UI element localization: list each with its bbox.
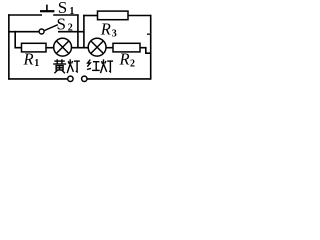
svg-text:S: S bbox=[57, 14, 66, 33]
resistor R3 bbox=[98, 11, 129, 20]
wire top-right segment of S1 branch bbox=[53, 14, 78, 16]
resistor R2 bbox=[113, 43, 140, 52]
svg-text:R: R bbox=[23, 50, 34, 69]
svg-text:1: 1 bbox=[34, 58, 39, 69]
stray mark near right rail bbox=[147, 33, 151, 35]
label R1 bbox=[23, 50, 40, 69]
wire R3 feed bbox=[83, 15, 97, 17]
wire right rail bbox=[150, 15, 152, 80]
wire junction segment between lamps bbox=[72, 47, 89, 49]
label S2 bbox=[57, 14, 73, 33]
label R2 bbox=[119, 50, 136, 70]
resistor R1 bbox=[22, 43, 47, 52]
svg-text:R: R bbox=[100, 20, 111, 39]
svg-text:2: 2 bbox=[68, 22, 73, 33]
switch S2 bbox=[39, 25, 58, 34]
label 红灯 (red lamp) hand-drawn glyphs bbox=[87, 59, 113, 73]
wire R1 to yellow lamp bbox=[46, 47, 55, 49]
wire S2 right segment bbox=[58, 31, 85, 33]
wire R3 to right rail bbox=[128, 15, 151, 17]
wire middle-right vertical (R3 branch down to lamp node) bbox=[83, 15, 85, 48]
lamp red bbox=[88, 38, 106, 56]
wire bottom right bbox=[87, 78, 151, 80]
svg-text:R: R bbox=[119, 50, 130, 69]
label R3 bbox=[100, 20, 117, 40]
svg-text:1: 1 bbox=[69, 6, 74, 17]
switch S1 bbox=[40, 5, 54, 12]
label S1 bbox=[58, 0, 75, 17]
terminal left bbox=[68, 76, 73, 81]
wire bottom left bbox=[8, 78, 68, 80]
wire S2 feed from left rail bbox=[8, 31, 39, 33]
wire left rail bbox=[8, 14, 10, 79]
terminal right bbox=[82, 76, 87, 81]
wire red lamp to R2 bbox=[106, 47, 113, 49]
label 黄灯 (yellow lamp) hand-drawn glyphs bbox=[53, 59, 80, 73]
wire top-left segment bbox=[8, 14, 42, 16]
svg-text:3: 3 bbox=[112, 29, 117, 40]
svg-text:2: 2 bbox=[130, 58, 135, 69]
wire tap down to R1 row bbox=[15, 31, 21, 48]
lamp yellow bbox=[54, 38, 72, 56]
wire R2 jog to right rail bbox=[140, 48, 151, 54]
wire middle-left vertical (S1 branch down to lamp node) bbox=[77, 14, 79, 48]
